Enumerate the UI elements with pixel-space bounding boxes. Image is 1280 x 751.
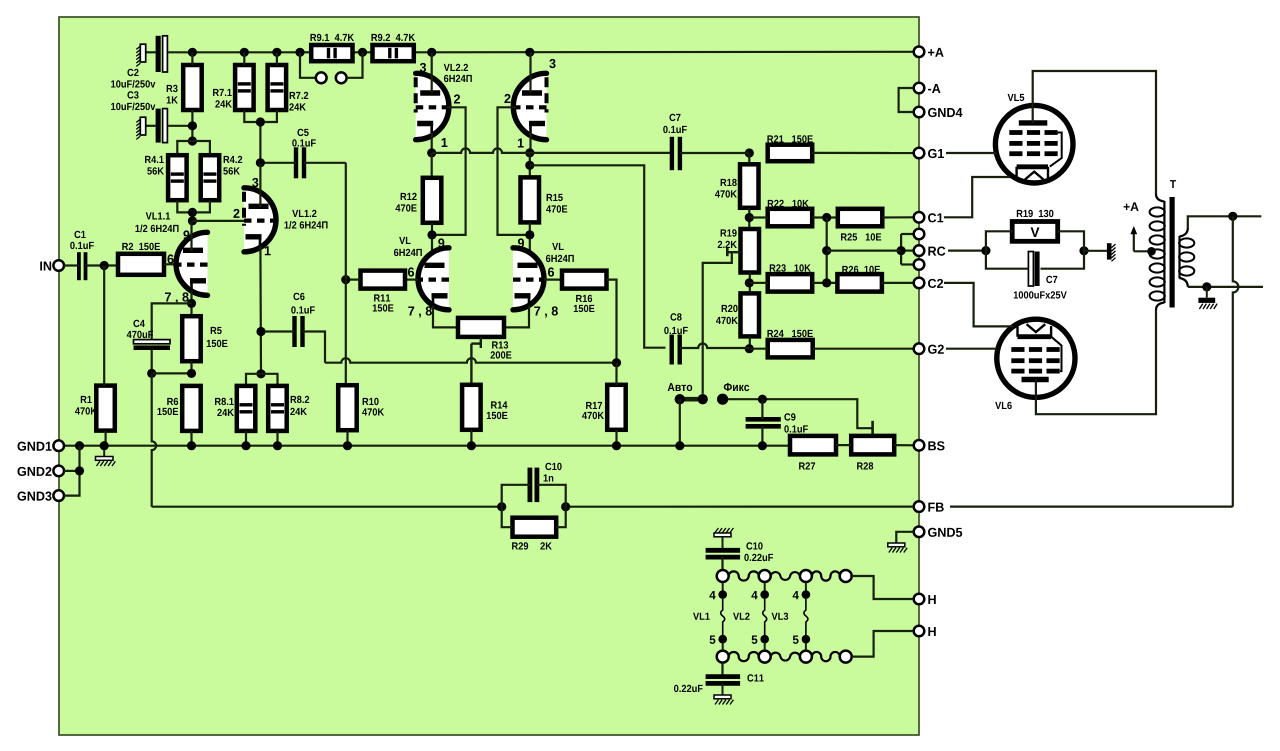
junction (758, 395, 767, 404)
wire heater top to H terminal (852, 576, 914, 599)
wire R22 left (749, 216, 767, 218)
junction (187, 299, 196, 308)
resistor R1 470K (96, 386, 115, 431)
net T2 cathode to C8 (530, 165, 666, 347)
capacitor C7 1000uFx25V (1028, 252, 1039, 287)
resistor R28 (851, 436, 894, 455)
terminal IN (40, 260, 64, 271)
wire R4 bottoms bracket to VL1.2 grid node (177, 200, 210, 212)
pin 9 label T5 (438, 238, 444, 247)
junction (188, 121, 197, 130)
wire R23 right to R26 (812, 282, 837, 284)
label VL1.1 (146, 212, 170, 219)
resistor R19 130 voltmeter (1012, 222, 1057, 242)
label R12 470E (401, 193, 417, 200)
resistor R18 470K (740, 164, 759, 208)
label C4 470uF (133, 320, 144, 327)
terminal GND5 (914, 527, 962, 538)
wire VL1.2 plate node to C5 to R11 column (260, 162, 296, 164)
resistor R24 150E (768, 340, 813, 358)
label C7 0.1uF (669, 114, 680, 121)
junction (188, 48, 197, 57)
wire G2 to VL6 grid (946, 348, 997, 350)
label R7.1 24K (213, 89, 232, 96)
junction (188, 208, 197, 217)
wire T6 cathode to R13 (504, 306, 529, 328)
junction (745, 278, 754, 287)
pin 9 label T6 (518, 238, 524, 247)
resistor R15 470E (521, 177, 540, 222)
label R17 470K (586, 402, 602, 409)
label +A transformer (1124, 202, 1139, 211)
wire G1 to VL5 grid (946, 152, 997, 154)
resistor R22 10K (768, 209, 813, 227)
wire C1 to VL5 cathode (944, 177, 1010, 217)
label R3 1K (167, 85, 178, 92)
wire +A center tap (1130, 226, 1155, 256)
label VL3 (772, 613, 789, 620)
label R9.1 4.7K (310, 34, 354, 41)
wire R18 top (748, 153, 750, 164)
wire VL1.2 cathode node to C6 (261, 330, 295, 332)
wire T1 grid to lower node (432, 107, 466, 235)
wire R22 right to R25 (812, 216, 838, 218)
label C2 (127, 69, 138, 76)
junction (427, 148, 436, 157)
resistor R4.1 56K (168, 155, 187, 200)
label R9.2 4.7K (371, 34, 415, 41)
wire jumper right drop (347, 52, 363, 78)
pin 3 label T2 (549, 59, 555, 68)
terminal RC aux (914, 229, 925, 240)
label R4.1 56K (145, 156, 164, 163)
wire R3 top (191, 52, 193, 65)
terminal -A (914, 83, 941, 94)
wire R24 right to G2 terminal (813, 348, 914, 350)
label R24 150E (767, 330, 812, 337)
wire R25 right to C1 terminal (882, 216, 913, 218)
junction (256, 158, 265, 167)
junction (612, 358, 621, 367)
label C3 (127, 91, 138, 98)
wire R18 bottom to R22 node (748, 208, 750, 229)
switch Fiks contact (717, 394, 728, 405)
label R25 10E (841, 233, 881, 240)
wire R22 node down to RC and R23 node (826, 218, 828, 283)
heater VL1 pins 4-5 (709, 582, 727, 651)
label C10 1n (545, 463, 561, 470)
label VL2.2 6H24P (444, 64, 468, 71)
heater bus top wavy wires (729, 571, 840, 580)
wire Fiks line to R28 wiper (728, 399, 873, 428)
wire VL5 plate to transformer (1033, 71, 1156, 194)
wire R1 top from input node (103, 266, 105, 386)
terminal H (914, 594, 936, 605)
pin 7,8 label VL1.1 (165, 292, 189, 303)
resistor R7.2 24K (268, 65, 287, 110)
pin 2 label T1 (454, 94, 460, 103)
net ground rail (64, 445, 790, 447)
label VL5 (1008, 94, 1025, 101)
label R21 150E (767, 135, 812, 142)
label 0.22uF C11 (674, 685, 703, 692)
label C11 (747, 674, 763, 681)
junction (822, 278, 831, 287)
capacitor C8 (672, 335, 680, 365)
wire R17 top (615, 363, 617, 385)
pin 7,8 label T5 (408, 306, 432, 317)
terminal RC (914, 245, 946, 256)
label R20 470K (722, 305, 738, 312)
wire R24 left (749, 348, 767, 350)
resistor R29 2K (513, 518, 557, 537)
junction (612, 441, 621, 450)
wire C9 bottom (761, 426, 763, 445)
wire R23 left (749, 282, 767, 284)
wire IN to C1 to R2 (64, 264, 79, 266)
capacitor C4 470uF (134, 340, 171, 350)
label VL2 (733, 613, 750, 620)
wire R2 to VL1.1 grid (164, 263, 176, 265)
wire R1 bottom (104, 431, 106, 446)
wire T2 grid to lower node (498, 107, 530, 235)
net FB line (152, 506, 502, 508)
ground chassis near C3 (136, 117, 145, 139)
label R19 2.2K (721, 229, 737, 236)
pin 1 label VL1.2 (265, 246, 271, 255)
wire R10 bottom (346, 430, 348, 446)
junction (525, 148, 534, 157)
pin 1 label T2 (518, 139, 524, 148)
resistor R12 470E (423, 178, 442, 223)
pin 3 label VL1.2 (252, 178, 258, 187)
transformer secondary winding (1179, 228, 1194, 287)
junction (100, 441, 109, 450)
junction (745, 148, 754, 157)
junction (341, 275, 350, 284)
wire C2 to VL6 cathode (944, 283, 1014, 327)
label R29 2K (512, 542, 528, 549)
terminal G2 (914, 343, 944, 354)
resistor R11 150E (361, 271, 406, 289)
label R1 470K (81, 396, 92, 403)
resistor R4.2 56K (201, 155, 220, 200)
ground GND5 (888, 532, 914, 553)
resistor R13 200E (458, 318, 504, 337)
junction (256, 327, 265, 336)
wire R29 branch (502, 507, 513, 528)
label VL6 (995, 402, 1012, 409)
jumper terminal left (316, 72, 327, 83)
capacitor C2 (156, 36, 168, 72)
label R28 (857, 462, 873, 469)
label C5 0.1uF (297, 129, 308, 136)
terminal C2 (914, 278, 943, 289)
wire VL1.1 plate lead from grid node (190, 221, 192, 251)
wire R17 bottom (615, 430, 617, 446)
wire R21 right to G1 (812, 152, 914, 154)
junction (240, 48, 249, 57)
ground below C11 (714, 683, 733, 704)
wire R14 bottom (470, 430, 472, 446)
label R11 150E (374, 294, 390, 301)
junction (897, 246, 906, 255)
terminal RC aux (914, 259, 925, 270)
capacitor C5 (296, 147, 304, 178)
pin 9 label VL1.1 (183, 230, 189, 239)
junction (981, 246, 990, 255)
label R2 150E (122, 243, 160, 250)
junction (497, 502, 506, 511)
pentode VL5 (995, 105, 1073, 183)
wire (680, 344, 749, 349)
wire R27 R28 BS (836, 444, 851, 446)
resistor R8.2 24K (268, 386, 287, 431)
capacitor C3 (156, 109, 168, 143)
label VL 6H24P left (399, 237, 410, 244)
label R26 10E (842, 266, 880, 273)
triode VL1.1 (176, 232, 207, 295)
wire R19 bottom to R23 node (749, 273, 751, 294)
terminal GND3 (17, 490, 64, 501)
resistor R21 150E (768, 145, 813, 162)
capacitor C6 (295, 316, 303, 347)
heater bus top pin circles (717, 570, 852, 582)
terminal FB (914, 501, 944, 512)
pin 6 label T5 (408, 267, 414, 276)
junction (343, 441, 352, 450)
jumper terminal right (336, 72, 347, 83)
resistor R26 10E (837, 274, 882, 292)
resistor R20 470K (741, 293, 760, 336)
heater bus bottom wavy wires (729, 652, 840, 661)
heater bus bottom pin circles (717, 651, 852, 663)
junction (187, 369, 196, 378)
wire C10 branch (502, 485, 530, 507)
label R8.2 24K (291, 396, 310, 403)
label R18 470K (721, 179, 737, 186)
wire R3 bottom / node to R4 bracket (191, 110, 193, 141)
wire T5 cathode to R13 (433, 306, 458, 328)
resistor R9.2 4.7K (373, 45, 414, 61)
junction (147, 369, 156, 378)
junction (295, 48, 304, 57)
wire R8 bracket (246, 374, 278, 386)
label C7 1000uF (1046, 276, 1057, 283)
junction (427, 48, 436, 57)
wire RC node to meter block (827, 250, 901, 252)
resistor R8.1 24K (237, 386, 256, 431)
label R13 200E (492, 341, 508, 348)
pentode VL6 (997, 319, 1075, 397)
junction (822, 246, 831, 255)
label R7.2 24K (290, 92, 309, 99)
circuit board background (59, 17, 919, 735)
terminal H (914, 626, 936, 637)
wire VL1.1 cathode down (190, 290, 192, 316)
triode VL1.2 (244, 188, 276, 252)
wire R11 left to C5 column (346, 279, 361, 281)
junction (1079, 246, 1088, 255)
net +A top rail (147, 51, 914, 54)
capacitor C10 0.22uF (706, 550, 741, 557)
capacitor C9 (746, 419, 781, 426)
label R27 (799, 462, 815, 469)
wire T5 grid to R11 (405, 279, 418, 281)
wire C7 to R21 node (680, 152, 749, 154)
capacitor C10 1n (530, 468, 537, 503)
junction (187, 441, 196, 450)
label R8.1 24K (215, 398, 234, 405)
ground above C10 heater (714, 528, 733, 548)
junction (525, 230, 534, 239)
junction (256, 369, 265, 378)
junction (675, 441, 684, 450)
label R22 10K (768, 200, 809, 207)
junction (525, 161, 534, 170)
junction (1202, 282, 1211, 291)
label C6 0.1uF (293, 293, 304, 300)
wire FB vertical drop (152, 373, 156, 506)
junction (758, 441, 767, 450)
label VL 6H24P right (552, 243, 563, 250)
junction (467, 441, 476, 450)
label C10 0.22uF (746, 542, 762, 549)
wire T2 plate lead (529, 52, 531, 93)
wire R5 bottom (190, 361, 192, 373)
triode VL 6H24P left (418, 248, 449, 310)
resistor R10 470K (338, 385, 357, 430)
junction (822, 213, 831, 222)
wire R28 wiper tick (871, 421, 874, 437)
wire C9 top (761, 399, 763, 419)
resistor R5 150E (182, 316, 201, 361)
terminal GND1 (17, 440, 64, 451)
pin 6 label T6 (548, 267, 554, 276)
wire FB feedback vertical (1233, 216, 1239, 506)
ground symbol under R1 (96, 450, 116, 467)
triode VL 6H24P right (513, 248, 544, 310)
capacitor C11 (706, 677, 741, 684)
wire T2 cathode to pin1 node (529, 133, 531, 153)
label R10 470K (363, 398, 379, 405)
wire VL1.2 plate lead (259, 163, 261, 207)
wire RC bracket (901, 234, 914, 265)
label R6 150E (167, 398, 178, 405)
junction (525, 48, 534, 57)
wire (325, 358, 617, 363)
wire grid node to VL1.2 pin 2 (192, 220, 244, 222)
label VL1.2 (292, 210, 316, 217)
terminal GND4 (914, 107, 963, 118)
resistor R3 1K (183, 65, 202, 110)
triode VL2.2 right half (513, 73, 546, 139)
wire C7 branch (986, 251, 1028, 269)
resistor R27 (790, 436, 836, 455)
wire T1 cathode to pin1 node (431, 133, 433, 153)
wire Avto to ground rail (679, 399, 681, 446)
wire VL6 plate to transformer (1036, 310, 1156, 414)
junction (272, 48, 281, 57)
wire C4 bottom to R6 node and FB drop (151, 350, 153, 373)
transformer primary winding (1150, 194, 1165, 310)
label C8 0.1uF (670, 313, 681, 320)
junction (427, 230, 436, 239)
resistor R6 150E (182, 386, 201, 431)
wire bracket to R4.1/R4.2 tops (177, 141, 210, 155)
wire secondary bottom output with hop (1188, 286, 1263, 288)
wire C10 to heater row (721, 557, 723, 571)
junction (188, 216, 197, 225)
junction (241, 441, 250, 450)
wire R12 bottom to T5 plate (431, 223, 433, 266)
ground secondary (1198, 287, 1217, 309)
wire FB terminal to feedback (950, 506, 1233, 508)
wire C6 right to long line (303, 332, 326, 363)
wire R7 bottoms bracket to VL1.2 plate node (244, 110, 277, 122)
ground right of meter block (1084, 243, 1116, 261)
junction (273, 441, 282, 450)
wire T6 grid to R16 (544, 279, 562, 281)
junction (100, 261, 109, 270)
heater VL3 pins 4-5 (793, 582, 811, 651)
wire -A to GND4 bracket (899, 88, 914, 112)
junction (256, 117, 265, 126)
terminal G1 (914, 148, 944, 159)
label R23 10K (770, 264, 811, 271)
junction (561, 502, 570, 511)
label R16 150E (576, 295, 592, 302)
junction (745, 344, 754, 353)
label C9 0.1uF (784, 413, 795, 420)
terminal +A (914, 47, 944, 58)
wire R7 tops (243, 52, 245, 65)
junction (1228, 212, 1237, 221)
junction (358, 48, 367, 57)
wire T1 plate lead (431, 52, 433, 93)
junction (745, 213, 754, 222)
wire jumper left drop (300, 52, 316, 78)
pin 1 label T1 (442, 138, 448, 147)
resistor R9.1 4.7K (311, 45, 352, 61)
label R5 150E (211, 327, 222, 334)
wire R13 wiper tap (471, 337, 480, 385)
wire R8 bottoms (245, 431, 247, 446)
wire T1 pin1 to R12 (431, 153, 433, 178)
net RC link line (948, 250, 986, 252)
wire V meter branch (986, 231, 1012, 250)
label R19 130 (1017, 210, 1054, 217)
label C1 0.1uF (74, 231, 85, 238)
pin 2 label T2 (504, 94, 510, 103)
junction (75, 466, 84, 475)
capacitor C7 (672, 137, 680, 170)
wire R15 bottom to T6 plate (529, 222, 531, 266)
label T (1170, 180, 1176, 188)
resistor R7.1 24K (235, 65, 254, 110)
label R14 150E (491, 401, 507, 408)
junction (75, 441, 84, 450)
junction (188, 136, 197, 145)
resistor R14 150E (462, 385, 481, 430)
wire cathode to C4 branch (152, 303, 192, 339)
pin 2 label VL1.2 (233, 209, 239, 218)
resistor R25 10E (838, 209, 883, 227)
terminal BS (914, 440, 945, 451)
wire T2 pin1 to R15 (529, 153, 531, 178)
label VL1 (693, 613, 710, 620)
label Fiks (724, 383, 749, 391)
